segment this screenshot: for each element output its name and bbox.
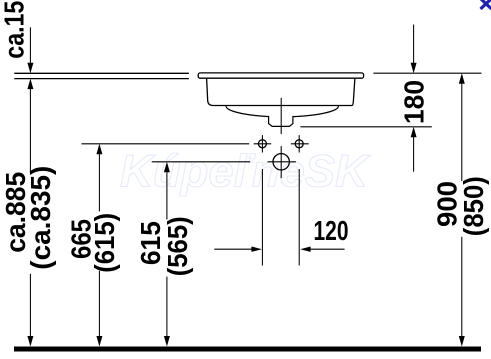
floor line (14, 347, 481, 352)
dim line ca.885 lower segment (29, 274, 31, 337)
arrow up 900 (459, 73, 465, 84)
extension line 180 lower (300, 126, 431, 128)
dim line 665 upper segment (98, 151, 100, 211)
centerline through big hole (280, 146, 282, 178)
faucet hole left (258, 140, 266, 148)
extension line 615 level (152, 161, 250, 163)
basin rim (198, 73, 363, 78)
counter bottom line (14, 78, 189, 80)
svg-text:120: 120 (314, 215, 349, 246)
faucet hole left crosshair (254, 135, 272, 152)
arrow down 615 floor (164, 336, 170, 347)
svg-text:(ca.835): (ca.835) (25, 166, 56, 270)
dim line 900 lower segment (461, 237, 463, 337)
arrow down 180 (411, 63, 417, 73)
counter level extension line right (373, 72, 481, 74)
svg-text:(615): (615) (89, 213, 120, 273)
faucet hole right (295, 140, 303, 148)
extension line 120 left (261, 169, 263, 266)
arrow up 665 (96, 144, 102, 155)
drain outlet (269, 116, 293, 126)
centerline upper (280, 98, 282, 134)
dim line 180 upper segment (413, 25, 415, 64)
arrow down ca.15 (27, 63, 33, 74)
faucet hole right crosshair (291, 135, 309, 152)
svg-text:180: 180 (399, 80, 430, 124)
extension line 120 right (298, 169, 300, 266)
arrow down 665 floor (96, 336, 102, 347)
svg-text:(850): (850) (458, 176, 489, 236)
dim line 900 upper segment (461, 81, 463, 182)
svg-text:KúpeľneSK: KúpeľneSK (120, 146, 372, 197)
dim line 180 lower segment (413, 134, 415, 172)
extension line 665 level (82, 143, 250, 145)
overflow hole crosshair (268, 161, 296, 163)
basin inner bowl arc (226, 106, 339, 117)
svg-text:ca.15: ca.15 (0, 1, 29, 59)
arrow up 615 (164, 162, 170, 173)
dim arrow 120 right (310, 248, 345, 250)
dim line ca.15 upper (29, 27, 31, 63)
arrow down ca.885 floor (27, 336, 33, 347)
arrow up ca.885 (27, 79, 33, 90)
dim line 615 upper segment (166, 169, 168, 220)
blue close x top right (481, 0, 491, 9)
dim line 665 lower segment (98, 271, 100, 337)
dim line 615 lower segment (166, 277, 168, 337)
counter top line (14, 72, 189, 74)
svg-text:(565): (565) (162, 216, 193, 276)
overflow hole (273, 154, 289, 170)
basin bowl outer (207, 78, 355, 105)
dim arrow 120 left (214, 248, 252, 250)
dim line ca.885 upper segment (29, 89, 31, 173)
arrow up 180 (411, 127, 417, 138)
arrow down 900 floor (459, 336, 465, 347)
